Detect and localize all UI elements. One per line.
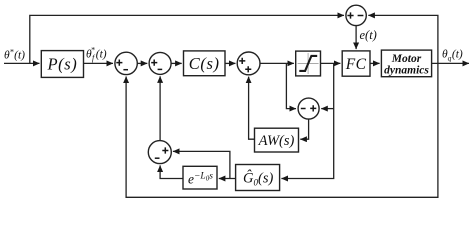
wire sum5 to saturation [260,62,294,64]
wire top sum output e(t) down into FC [355,26,357,49]
block AW(s) [255,128,299,152]
wire tap up into sum3 plus [173,151,230,178]
wire branch into sum4 plus [321,108,334,110]
sum junction 3 smith predictor [148,141,171,164]
sign minus top sum [358,15,364,17]
wire saturation to FC [321,62,341,64]
sum junction 4 anti-windup [298,98,319,119]
svg-text:AW(s): AW(s) [258,133,295,149]
block C(s) [184,51,226,76]
block G0(s) [236,165,280,191]
sign plus sum4 [310,105,316,111]
sign plus bottom sum5 [245,66,251,72]
sign plus top sum [347,12,353,18]
svg-text:FC: FC [345,56,367,73]
wire tap after saturation down to G0 model input [281,63,333,178]
block saturation [296,51,321,76]
wire feedforward branch to top sum [30,15,344,63]
saturation symbol axes [298,53,319,74]
svg-text:e(t): e(t) [360,28,377,42]
wire sum3 output up into sum2 [159,76,161,141]
block Motor dynamics [381,50,431,77]
wire delay output up into sum3 minus [160,165,183,178]
sum junction 1 [115,52,137,74]
wire Motor dynamics to output [432,62,469,64]
wire output tap up to top sum minus input [368,15,438,63]
svg-text:θ*(t): θ*(t) [4,48,25,62]
wire P(s) to sum1 [84,62,114,64]
wire tap before saturation down into sum4 minus [286,63,296,108]
sign plus sum2 [151,60,157,66]
sign minus sum1 [123,69,128,71]
block P(s) [41,51,83,78]
svg-text:P(s): P(s) [46,54,77,73]
sum signs [116,12,363,158]
block FC [342,51,370,76]
svg-text:θf*(t): θf*(t) [86,45,107,62]
svg-text:Ĝ0(s): Ĝ0(s) [243,170,273,188]
block delay e^-L0s [183,166,217,189]
svg-text:C(s): C(s) [189,54,220,73]
wire outer feedback loop bottom into sum1 [126,63,438,197]
wire AW(s) output up into sum5 [249,77,255,140]
wire G0 output to delay block [219,178,236,180]
wire sum4 output down into AW(s) [300,119,308,139]
wire sum2 to C(s) [171,62,181,64]
wire sum1 to sum2 [137,62,147,64]
wire C(s) to sum5 [225,62,236,64]
svg-text:θq(t): θq(t) [442,49,463,63]
svg-text:Motor: Motor [391,53,422,65]
sign minus sum3 [155,157,160,159]
sum junction 5 after C(s) [237,52,260,75]
sum junction top (e(t)) [346,5,366,25]
sign minus sum4 [301,108,306,110]
svg-text:dynamics: dynamics [384,65,429,77]
saturation symbol curve [299,56,317,71]
wire input theta*(t) [4,62,40,64]
sign minus sum2 [158,68,163,70]
wire FC to Motor dynamics [370,62,380,64]
sign plus sum1 [116,60,122,66]
sum junction 2 [149,52,171,74]
sign plus left sum5 [239,58,245,64]
sign plus sum3 [162,147,168,153]
